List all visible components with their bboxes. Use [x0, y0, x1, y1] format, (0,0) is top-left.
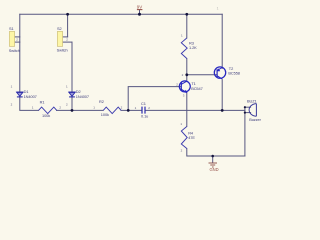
svg-text:C1: C1 [141, 101, 146, 106]
svg-text:1: 1 [32, 106, 34, 110]
svg-text:S2: S2 [57, 26, 62, 31]
svg-text:2: 2 [11, 103, 13, 107]
svg-text:2: 2 [66, 37, 68, 41]
svg-text:1: 1 [66, 84, 68, 88]
svg-text:Switch: Switch [9, 48, 20, 53]
svg-text:100k: 100k [101, 112, 109, 117]
svg-text:1N4007: 1N4007 [24, 94, 37, 99]
svg-text:9V: 9V [137, 5, 142, 10]
svg-text:2: 2 [182, 73, 184, 77]
svg-text:1.2K: 1.2K [189, 45, 197, 50]
svg-text:2: 2 [121, 106, 123, 110]
svg-text:47E: 47E [188, 135, 195, 140]
svg-text:R1: R1 [40, 99, 45, 104]
svg-text:3: 3 [183, 94, 185, 98]
svg-text:1: 1 [135, 106, 137, 110]
svg-text:2: 2 [148, 106, 150, 110]
svg-text:Switch: Switch [57, 48, 68, 53]
svg-text:1N4007: 1N4007 [76, 94, 89, 99]
svg-text:BUZ1: BUZ1 [247, 99, 257, 104]
svg-text:1: 1 [11, 84, 13, 88]
svg-text:2: 2 [176, 82, 178, 86]
svg-text:2: 2 [59, 106, 61, 110]
svg-text:S1: S1 [9, 26, 14, 31]
svg-text:2: 2 [66, 103, 68, 107]
svg-text:2: 2 [16, 38, 18, 42]
svg-text:GND: GND [210, 167, 219, 172]
svg-text:1: 1 [181, 33, 183, 37]
svg-text:1: 1 [180, 122, 182, 126]
svg-text:R2: R2 [99, 99, 104, 104]
svg-text:100k: 100k [42, 113, 50, 118]
svg-text:2: 2 [181, 148, 183, 152]
svg-text:0.1u: 0.1u [141, 114, 148, 119]
svg-text:1: 1 [93, 106, 95, 110]
svg-text:1: 1 [217, 7, 219, 11]
svg-text:BC547: BC547 [191, 86, 203, 91]
svg-text:BC558: BC558 [228, 71, 240, 76]
svg-text:Buzzer: Buzzer [249, 117, 261, 122]
